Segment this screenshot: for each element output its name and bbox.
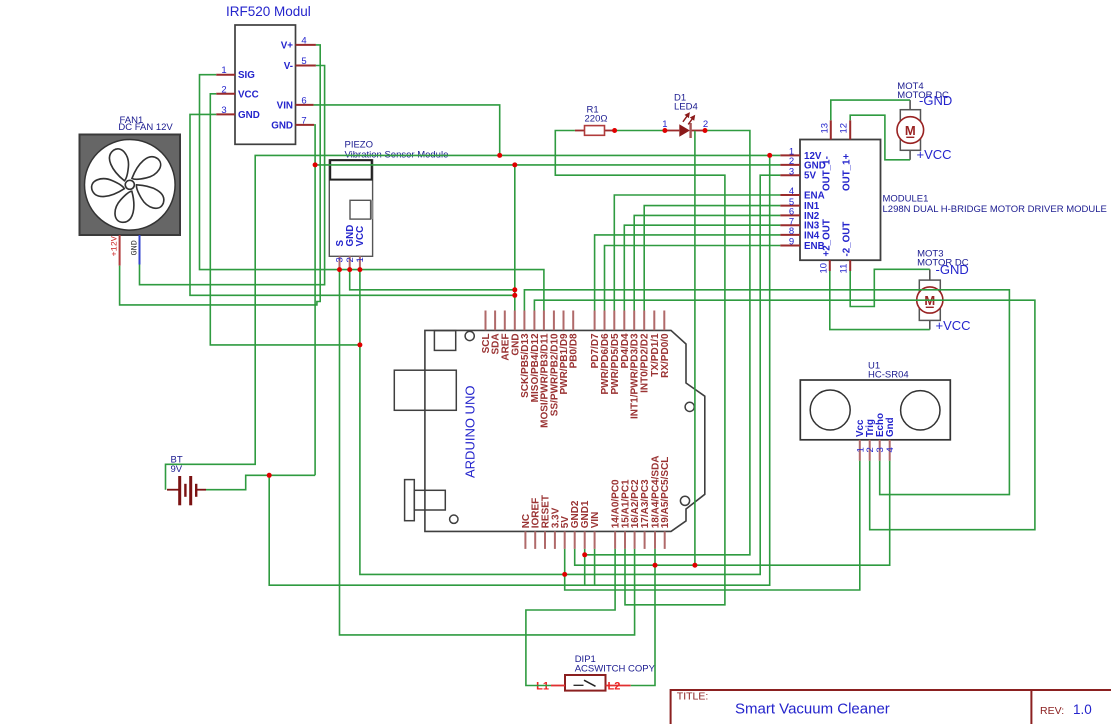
- svg-text:3: 3: [221, 105, 226, 116]
- piezo vibration sensor module PIEZO: [345, 139, 449, 160]
- wire L298N pin11 to MOT3 -GND: [850, 269, 930, 306]
- HC-SR04 pin names Vcc Trig Echo Gnd: [855, 413, 896, 437]
- wire arduino GND pin riser: [514, 165, 516, 311]
- resistor R1 220ohm: [575, 105, 613, 136]
- svg-text:LED4: LED4: [674, 102, 698, 113]
- piezo pin numbers 3 2 1: [335, 257, 366, 262]
- svg-text:VCC: VCC: [355, 226, 366, 247]
- svg-text:GND: GND: [130, 240, 140, 255]
- svg-text:+2_OUT: +2_OUT: [821, 219, 832, 256]
- arduino bottom pin names: [521, 455, 671, 528]
- wire arduino D4 to L298N IN3: [624, 225, 780, 310]
- svg-text:1: 1: [355, 257, 366, 262]
- wire arduino D3 to L298N IN2: [634, 215, 780, 310]
- piezo pin stubs 3 2 1: [340, 256, 360, 268]
- piezo pin names S GND VCC: [335, 225, 366, 247]
- switch lever: [574, 684, 584, 686]
- battery symbol plates: [167, 476, 206, 505]
- HC-SR04 body: [800, 380, 950, 440]
- arduino pin stubs: [486, 311, 665, 549]
- wire R1 right to LED pin1: [615, 130, 665, 132]
- svg-text:5V: 5V: [804, 171, 816, 182]
- L298N body: [800, 140, 881, 261]
- L298N pin numbers: [789, 123, 850, 274]
- svg-text:+12V: +12V: [109, 235, 119, 256]
- node LED pin2: [703, 128, 708, 133]
- svg-text:SIG: SIG: [238, 70, 255, 81]
- IRF520 pin names SIG VCC GND V+ V- VIN GND: [238, 40, 293, 131]
- svg-text:Smart Vacuum Cleaner: Smart Vacuum Cleaner: [735, 700, 890, 717]
- IRF520 pin stubs 1-7: [216, 45, 316, 125]
- wire arduino GND2 to HC-SR04 Gnd: [575, 461, 890, 565]
- node 12V bus riser junction: [767, 153, 772, 158]
- svg-text:M: M: [905, 123, 916, 138]
- title block: [671, 690, 1111, 724]
- node x695 riser junction: [692, 563, 697, 568]
- svg-text:5: 5: [301, 56, 306, 67]
- svg-text:VCC: VCC: [238, 89, 259, 100]
- node arduino GND upper junction: [512, 287, 517, 292]
- wire R1 left lead riser to 5V row then down to arduino A1: [555, 131, 725, 605]
- svg-text:9V: 9V: [171, 464, 183, 475]
- node A4 to GND2 line junction: [653, 563, 658, 568]
- wire piezo S down to bottom rail to arduino A2: [340, 270, 635, 635]
- fan body: [80, 135, 181, 236]
- svg-text:ENA: ENA: [804, 190, 825, 201]
- svg-text:4: 4: [789, 186, 794, 197]
- wire DIP1 L1 to arduino A0: [526, 549, 615, 686]
- wire arduino D6 to L298N ENB: [605, 246, 781, 311]
- IRF520 pin numbers 1-7: [221, 35, 306, 126]
- svg-text:4: 4: [885, 447, 896, 452]
- resistor body and leads: [575, 130, 585, 132]
- svg-text:220Ω: 220Ω: [585, 114, 608, 125]
- fan FAN1 DC FAN 12V: [80, 115, 181, 265]
- title block border: [671, 690, 1111, 724]
- fan pin +12V: [119, 235, 121, 266]
- svg-text:6: 6: [301, 95, 306, 106]
- arduino top pin names: [481, 333, 671, 428]
- svg-text:9: 9: [789, 237, 794, 248]
- svg-text:VIN: VIN: [590, 512, 601, 529]
- arduino board ARDUINO UNO: [394, 311, 705, 549]
- svg-text:L2: L2: [608, 680, 621, 692]
- wire LED pin2 down to arduino GND1: [585, 131, 750, 555]
- arduino board outline: [425, 330, 705, 531]
- wire arduino D13 to HC-SR04 Echo: [524, 290, 1009, 495]
- wire L298N pin12 to MOT4 +VCC: [850, 115, 910, 160]
- node arduino 5V junction: [562, 572, 567, 577]
- wire battery- lead to riser: [206, 475, 315, 489]
- L298N module MODULE1: [780, 120, 1107, 273]
- LED D1 LED4: [662, 92, 708, 138]
- wire IRF520 SIG / piezo S line to arduino D11: [200, 75, 544, 311]
- wire arduino GND1 stub down to bottom rail: [584, 549, 586, 585]
- wire piezo VCC down to 5V rail to L298N pin3: [360, 175, 780, 574]
- svg-text:-2_OUT: -2_OUT: [841, 222, 852, 257]
- wire arduino D12 to HC-SR04 Trig: [534, 300, 1035, 530]
- node battery- rail junction: [267, 473, 272, 478]
- node IRF520 VCC to piezo VCC junction: [357, 342, 362, 347]
- arduino mounting holes: [465, 331, 474, 340]
- wire arduino VIN stub down to bottom rail: [594, 549, 596, 585]
- svg-text:PB0/D8: PB0/D8: [569, 333, 580, 368]
- MOT3 motor symbol: [929, 269, 931, 280]
- svg-text:REV:: REV:: [1040, 705, 1064, 717]
- switch body: [565, 675, 606, 691]
- svg-text:11: 11: [839, 264, 850, 274]
- svg-text:IRF520 Modul: IRF520 Modul: [226, 4, 311, 19]
- wire IRF520 pin3 GND to arduino GND: [190, 114, 515, 295]
- svg-text:1: 1: [221, 65, 226, 76]
- svg-text:3: 3: [789, 166, 794, 177]
- node battery- to GND bus junction: [313, 162, 318, 167]
- wire IRF520 VIN to 12V bus: [314, 105, 500, 155]
- motor MOT4 MOTOR DC: [897, 81, 952, 162]
- L298N pin stubs 1-13: [780, 120, 850, 271]
- svg-text:12: 12: [839, 123, 850, 134]
- node piezo GND junction: [347, 267, 352, 272]
- wire arduino D7 to L298N IN4: [595, 235, 781, 311]
- svg-text:V-: V-: [284, 61, 293, 72]
- wire battery- down and bottom GND rail to x769 riser: [269, 155, 770, 585]
- svg-text:13: 13: [819, 123, 830, 134]
- wire IRF520 pin7 GND down to GND bus and battery- riser: [313, 125, 316, 475]
- svg-text:OUT_1+: OUT_1+: [841, 153, 852, 191]
- wire fan GND to IRF520 V-: [140, 66, 325, 285]
- svg-text:L298N DUAL H-BRIDGE MOTOR DRIV: L298N DUAL H-BRIDGE MOTOR DRIVER MODULE: [883, 204, 1107, 215]
- svg-text:ARDUINO UNO: ARDUINO UNO: [463, 386, 478, 478]
- switch DIP1 ACSWITCH COPY: [536, 654, 655, 692]
- motor MOT3 MOTOR DC: [917, 249, 971, 333]
- svg-text:7: 7: [301, 115, 306, 126]
- svg-text:17/A3/PC3: 17/A3/PC3: [640, 479, 651, 528]
- wire arduino 5V to 5V rail and HC-SR04 Vcc: [565, 461, 860, 590]
- svg-text:DC FAN 12V: DC FAN 12V: [118, 122, 173, 133]
- svg-text:+VCC: +VCC: [917, 147, 952, 162]
- svg-text:8: 8: [789, 226, 794, 237]
- svg-text:GND: GND: [271, 120, 293, 131]
- svg-text:OUT_1-: OUT_1-: [821, 156, 832, 191]
- piezo body: [329, 160, 373, 268]
- L298N pin names: [804, 151, 852, 257]
- battery BT 9V: [167, 454, 206, 505]
- svg-text:ACSWITCH COPY: ACSWITCH COPY: [575, 664, 656, 675]
- svg-text:19/A5/PC5/SCL: 19/A5/PC5/SCL: [660, 457, 671, 529]
- wire L298N pin10 to MOT3 +VCC: [830, 271, 930, 330]
- svg-text:Gnd: Gnd: [885, 417, 896, 437]
- svg-text:TITLE:: TITLE:: [677, 691, 709, 703]
- arduino power jack: [405, 480, 415, 521]
- node arduino GND to GND bus junction: [512, 162, 517, 167]
- svg-text:1.0: 1.0: [1073, 702, 1092, 717]
- HC-SR04 pin stubs: [860, 440, 890, 461]
- wire battery+ to 12V bus (net 12V): [166, 155, 781, 489]
- svg-text:V+: V+: [281, 40, 294, 51]
- svg-text:RX/PD0/0: RX/PD0/0: [660, 333, 671, 378]
- wire L298N pin13 to MOT4 -GND: [831, 100, 910, 120]
- IRF520 body: [235, 25, 296, 144]
- fan pin GND: [139, 235, 141, 265]
- wire arduino D2 to L298N IN1: [644, 206, 780, 311]
- svg-text:-GND: -GND: [936, 262, 969, 277]
- ultrasonic sensor U1 HC-SR04: [800, 361, 950, 461]
- arduino USB connector: [434, 331, 455, 351]
- IRF520 module U-IRF520: [216, 4, 316, 145]
- svg-text:4: 4: [301, 35, 306, 46]
- HC-SR04 pin numbers 1-4: [855, 447, 896, 452]
- wire piezo GND pin to arduino GND: [350, 270, 515, 290]
- wire DIP1 L2 to arduino A4: [631, 549, 655, 686]
- wire LED cathode riser x695 down to bottom line: [694, 131, 696, 565]
- svg-text:IN4: IN4: [804, 230, 820, 241]
- svg-text:VIN: VIN: [277, 100, 293, 111]
- node LED pin1: [662, 128, 667, 133]
- node piezo S junction: [337, 267, 342, 272]
- wire IRF520 pin2 VCC to piezo VCC: [210, 94, 360, 345]
- MOT4 motor symbol: [909, 100, 911, 110]
- LED symbol: [666, 130, 679, 132]
- svg-text:2: 2: [221, 84, 226, 95]
- node VIN to 12V bus junction: [497, 153, 502, 158]
- svg-text:-GND: -GND: [919, 93, 952, 108]
- node R1 pin2: [612, 128, 617, 133]
- svg-text:GND: GND: [238, 110, 260, 121]
- node piezo VCC junction: [357, 267, 362, 272]
- node arduino GND lower junction: [512, 293, 517, 298]
- svg-text:10: 10: [818, 263, 829, 274]
- wire fan +12V to IRF520 V+: [120, 45, 321, 305]
- svg-text:HC-SR04: HC-SR04: [868, 369, 909, 380]
- wire arduino D5 to L298N ENA: [614, 195, 780, 311]
- node arduino GND1 junction: [582, 552, 587, 557]
- wire GND bus to L298N pin2: [315, 164, 780, 166]
